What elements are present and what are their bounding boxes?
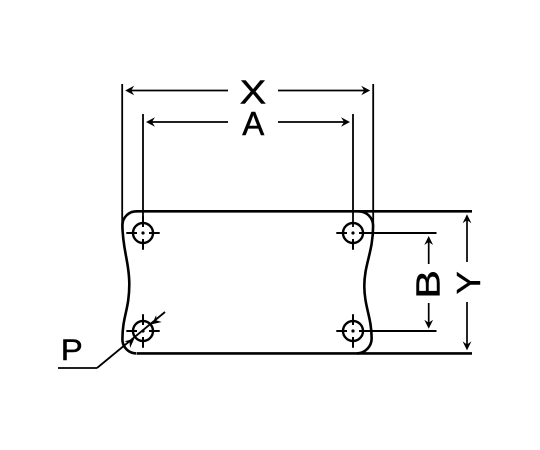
extension line X left: [121, 84, 123, 230]
arrowhead B up: [424, 236, 433, 245]
arrowhead Y up: [463, 214, 472, 223]
leader line P horizontal segment: [58, 367, 97, 369]
leader line P diagonal segment through hole: [97, 312, 165, 368]
extension line B top (from top-right hole): [359, 232, 437, 234]
svg-text:Y: Y: [450, 271, 487, 294]
arrowhead X left: [125, 86, 134, 96]
arrowhead Y down: [463, 341, 472, 350]
hole bottom-right center dot: [351, 329, 354, 332]
dimension line X right segment: [278, 90, 368, 92]
arrowhead B down: [424, 320, 433, 329]
hole bottom-left center dot: [141, 329, 144, 332]
extension line A left: [142, 114, 144, 227]
hole bottom-left circle: [133, 321, 153, 341]
hole bottom-right crosshair ticks: [336, 314, 353, 347]
hole top-right center dot: [351, 231, 354, 234]
plate right edge (wavy break): [357, 211, 373, 353]
arrowhead X right: [361, 86, 370, 96]
extension line A right: [352, 114, 354, 227]
hole top-left center dot: [141, 231, 144, 234]
hole bottom-left crosshair ticks: [126, 314, 159, 347]
plate left edge (wavy break): [122, 211, 136, 353]
dimension line A left segment: [149, 121, 228, 123]
hole top-left crosshair ticks: [126, 216, 159, 249]
dimension line Y lower segment: [466, 302, 468, 348]
dimension line B upper segment: [428, 239, 430, 264]
arrowhead P lower (points up-right at hole edge): [124, 339, 134, 348]
plate top edge with Y top extension line: [136, 210, 472, 213]
hole top-right crosshair ticks: [336, 233, 353, 250]
hole top-left circle: [133, 223, 153, 243]
arrowhead P upper (points down-left at hole edge): [152, 315, 162, 324]
svg-text:B: B: [410, 270, 447, 299]
svg-text:A: A: [242, 105, 264, 142]
extension line X right: [372, 84, 374, 230]
dimension line B lower segment: [428, 303, 430, 326]
hole top-right circle: [343, 223, 363, 243]
hole bottom-right circle: [343, 321, 363, 341]
plate bottom edge with Y bottom extension line: [137, 352, 472, 355]
arrowhead A left: [146, 117, 155, 127]
dimension line A right segment: [278, 121, 347, 123]
extension line B bottom (from bottom-right hole): [359, 330, 437, 332]
dimension line Y upper segment: [466, 217, 468, 262]
dimension line X left segment: [128, 90, 228, 92]
svg-text:P: P: [61, 334, 83, 367]
arrowhead A right: [341, 117, 350, 127]
